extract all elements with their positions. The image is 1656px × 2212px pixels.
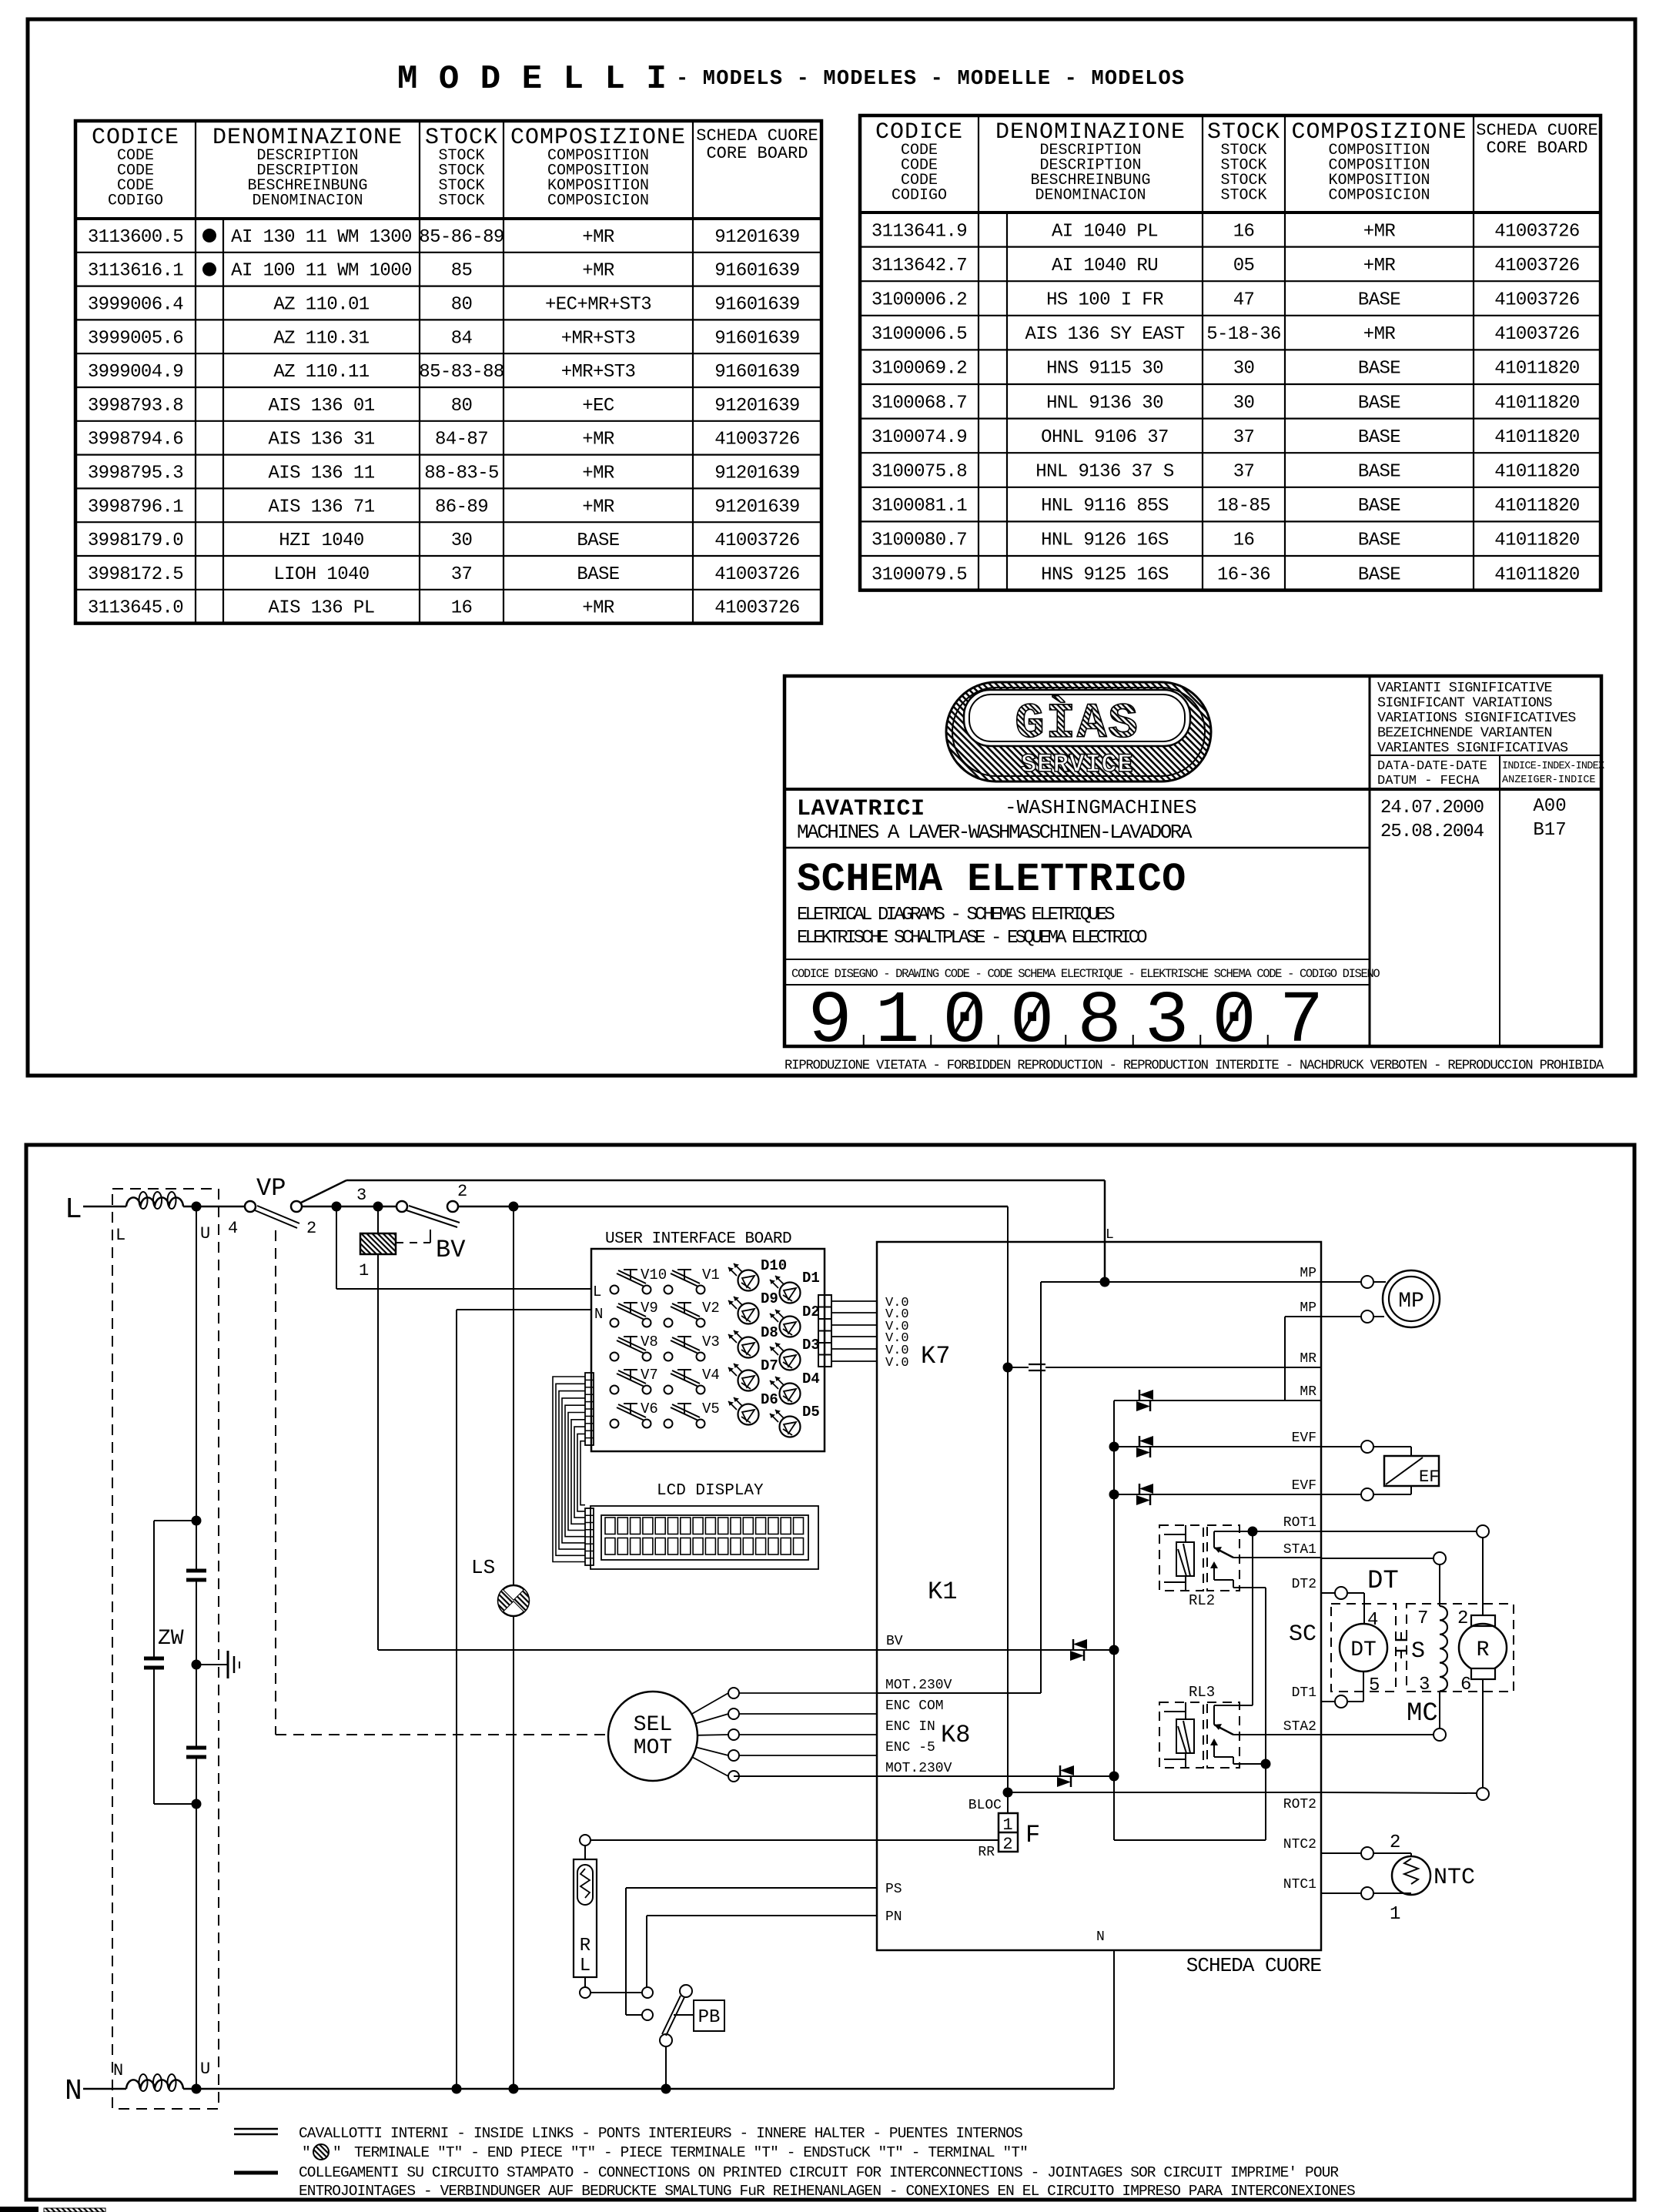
svg-text:V7: V7 [641,1367,658,1384]
dashed mechanical link BV [430,1230,431,1243]
svg-text:91601639: 91601639 [714,261,799,282]
svg-text:": " [333,2144,342,2161]
wire PB to N [665,2046,667,2089]
terminal ROT1 [1477,1525,1489,1538]
wire ZW left branch [153,1521,155,1658]
svg-text:CORE BOARD: CORE BOARD [706,144,808,163]
wire top L line to scheda cuore [346,1180,1105,1182]
wire EVF2 to terminal [1361,1488,1373,1501]
svg-text:3999004.9: 3999004.9 [88,362,183,383]
capacitor motor suppressor [1395,1639,1407,1641]
legend inside-links symbol [234,2128,278,2130]
svg-text:41011820: 41011820 [1494,564,1579,585]
node ZW top junction [192,1516,202,1526]
svg-text:41011820: 41011820 [1494,496,1579,517]
switch V10 [611,1267,667,1294]
fuse F [1007,1792,1009,1813]
svg-text:41011820: 41011820 [1494,393,1579,413]
svg-text:7: 7 [1280,979,1324,1063]
terminal NTC1 [1361,1887,1373,1899]
wire MR1 internal with inside link [1008,1367,1029,1368]
svg-text:18-85: 18-85 [1217,496,1270,517]
wire UI-N horizontal [457,1309,591,1310]
svg-text:05: 05 [1233,256,1255,276]
label box PB [694,2000,724,2031]
svg-text:AIS 136 01: AIS 136 01 [268,396,374,417]
svg-text:K7: K7 [921,1342,950,1370]
node ROT1 junction [1248,1527,1258,1537]
svg-text:+MR: +MR [582,463,614,484]
wire MOT.230V riser [1040,1282,1042,1693]
svg-text:3100006.2: 3100006.2 [871,290,967,311]
LED D6 [728,1391,778,1425]
terminal PB lower [642,2010,653,2020]
svg-text:PS: PS [885,1882,902,1897]
terminal DT2 [1335,1587,1347,1599]
svg-text:EVF: EVF [1292,1431,1316,1446]
svg-text:3998796.1: 3998796.1 [88,497,183,517]
svg-text:84: 84 [451,328,473,349]
svg-text:AIS 136 11: AIS 136 11 [268,463,374,484]
svg-text:MP: MP [1398,1290,1424,1313]
capacitor ZW C2 [144,1657,164,1661]
wire lamp drop [513,1206,514,1585]
wire PN internal and out [647,1915,877,1916]
svg-text:D6: D6 [761,1391,778,1408]
wire VP out to BV [302,1206,396,1208]
svg-text:TERMINALE "T" - END PIECE "T": TERMINALE "T" - END PIECE "T" - PIECE TE… [354,2144,1028,2161]
user interface board box [591,1249,825,1451]
wire EVF2 internal [1114,1494,1321,1495]
LED D4 [770,1370,820,1404]
LCD character cells [605,1518,804,1554]
svg-text:ENC IN: ENC IN [885,1719,935,1735]
switch V3 [664,1334,720,1361]
wire MP2 internal [1285,1316,1321,1317]
svg-text:+MR: +MR [1363,324,1396,345]
svg-text:3113645.0: 3113645.0 [88,598,183,619]
svg-text:INDICE-INDEX-INDEX: INDICE-INDEX-INDEX [1502,761,1604,772]
svg-text:ZW: ZW [158,1627,184,1651]
svg-text:ELETRICAL DIAGRAMS - SCHEMAS E: ELETRICAL DIAGRAMS - SCHEMAS ELETRIQUES [797,905,1115,925]
svg-text:9: 9 [808,979,852,1063]
svg-text:MOT.230V: MOT.230V [885,1678,952,1693]
svg-text:AI 100 11 WM 1000: AI 100 11 WM 1000 [231,261,412,282]
LCD display inner frame [601,1515,808,1560]
svg-text:+MR: +MR [582,430,614,450]
svg-text:V5: V5 [702,1400,720,1417]
node BV triac junction [1109,1645,1119,1655]
svg-text:VARIATIONS SIGNIFICATIVES: VARIATIONS SIGNIFICATIVES [1377,710,1576,726]
svg-text:MACHINES A LAVER-WASHMASCHINEN: MACHINES A LAVER-WASHMASCHINEN-LAVADORA [797,821,1193,844]
svg-text:L: L [580,1956,590,1976]
svg-text:SERVICE: SERVICE [1021,751,1133,780]
wire NTC2 external [1321,1852,1361,1854]
svg-text:HNL 9136 30: HNL 9136 30 [1046,393,1163,413]
svg-text:+MR+ST3: +MR+ST3 [561,362,636,383]
svg-text:U: U [200,1224,210,1243]
svg-text:ENTROJOINTAGES - VERBINDUNGER: ENTROJOINTAGES - VERBINDUNGER AUF BEDRUC… [299,2183,1355,2200]
wire UI-L drop [336,1206,337,1289]
wire EVF1 to EF valve [1373,1446,1411,1447]
svg-text:RL3: RL3 [1189,1684,1215,1701]
svg-text:L: L [65,1193,82,1226]
LED D7 [728,1357,778,1391]
triac EVF1 [1136,1436,1153,1457]
wires K7 to scheda cuore [831,1300,877,1302]
svg-text:85: 85 [451,261,473,282]
wire L input lead [83,1206,126,1208]
terminal NTC2 [1361,1847,1373,1859]
svg-text:37: 37 [1233,427,1255,448]
wire VP to top line [301,1180,346,1203]
svg-text:V6: V6 [641,1400,658,1417]
svg-text:84-87: 84-87 [435,430,488,450]
wire ZW branch top [154,1520,196,1521]
svg-text:37: 37 [1233,462,1255,483]
svg-text:NTC: NTC [1434,1865,1475,1891]
node MR1 junction [1003,1363,1013,1373]
svg-text:MR: MR [1300,1384,1316,1400]
node MOT triac junction [1109,1772,1119,1782]
svg-text:80: 80 [451,396,473,417]
terminal PB upper [642,1987,653,1998]
switch V7 [611,1367,658,1394]
svg-text:A00: A00 [1533,796,1566,817]
svg-text:3100069.2: 3100069.2 [871,359,967,380]
svg-text:HS 100 I FR: HS 100 I FR [1046,290,1163,311]
relay RL3 [1159,1702,1239,1768]
wire coil to VP [183,1206,245,1208]
LAVATRICI divider [785,847,1370,849]
svg-text:3998794.6: 3998794.6 [88,430,183,450]
svg-text:3113641.9: 3113641.9 [871,221,967,242]
wire STA1 to S winding [1439,1564,1440,1606]
svg-text:CODIGO: CODIGO [108,192,163,210]
svg-text:V.0: V.0 [885,1356,909,1370]
svg-text:V8: V8 [641,1334,658,1350]
LED D8 [728,1324,778,1358]
svg-text:MOT: MOT [634,1736,672,1760]
svg-text:LCD DISPLAY: LCD DISPLAY [657,1482,764,1500]
svg-text:V10: V10 [641,1267,667,1283]
svg-text:41011820: 41011820 [1494,530,1579,551]
wire lamp to N line [513,1616,514,2089]
svg-text:MP: MP [1300,1300,1316,1316]
svg-text:91201639: 91201639 [714,227,799,248]
svg-text:BEZEICHNENDE VARIANTEN: BEZEICHNENDE VARIANTEN [1377,725,1552,741]
svg-text:3: 3 [1145,979,1189,1063]
GIAS logo [946,682,1211,781]
svg-text:D10: D10 [761,1257,787,1274]
svg-text:+MR: +MR [582,261,614,282]
switch V4 [664,1367,720,1394]
switch V9 [611,1300,658,1327]
svg-text:2: 2 [1002,1835,1012,1854]
svg-text:SCHEDA CUORE: SCHEDA CUORE [696,126,818,146]
svg-text:24.07.2000: 24.07.2000 [1380,798,1484,818]
legend printed-circuit symbol [234,2171,278,2175]
svg-text:GÌAS: GÌAS [1015,695,1139,752]
svg-text:+EC: +EC [582,396,614,417]
svg-text:0: 0 [942,979,987,1063]
svg-text:F: F [1025,1821,1040,1849]
svg-text:2: 2 [457,1182,467,1201]
svg-text:3100080.7: 3100080.7 [871,530,967,551]
svg-text:AI 130 11 WM 1300: AI 130 11 WM 1300 [231,227,412,248]
svg-text:ANZEIGER-INDICE: ANZEIGER-INDICE [1502,775,1596,786]
svg-text:SCHEMA ELETTRICO: SCHEMA ELETTRICO [797,857,1186,902]
svg-text:OHNL 9106 37: OHNL 9106 37 [1041,427,1169,448]
LED D10 [728,1257,787,1291]
svg-text:+MR: +MR [582,497,614,517]
triac BV [1070,1639,1087,1661]
wire MOT.230V internal [877,1692,1041,1694]
svg-text:DENOMINACION: DENOMINACION [252,192,363,210]
svg-text:3998793.8: 3998793.8 [88,396,183,417]
svg-text:BASE: BASE [1358,290,1400,311]
svg-text:+MR: +MR [582,227,614,248]
wire ROT1 external [1321,1531,1477,1532]
svg-text:R: R [1477,1638,1490,1662]
svg-text:85-86-89: 85-86-89 [419,227,503,248]
top sheet border frame [28,19,1635,1076]
terminal RL bottom [580,1987,590,1998]
wire STA1 internal [1239,1557,1321,1558]
svg-text:DENOMINACION: DENOMINACION [1035,187,1146,205]
svg-text:D2: D2 [802,1303,820,1320]
svg-text:3100079.5: 3100079.5 [871,564,967,585]
svg-text:PN: PN [885,1909,902,1925]
svg-text:BASE: BASE [1358,393,1400,413]
svg-text:91201639: 91201639 [714,497,799,517]
svg-text:BLOC: BLOC [969,1798,1002,1813]
svg-text:AIS 136 SY EAST: AIS 136 SY EAST [1025,324,1184,345]
svg-text:16: 16 [1233,530,1255,551]
svg-text:3998172.5: 3998172.5 [88,564,183,585]
svg-text:2: 2 [1457,1608,1468,1629]
wire PB blade to label box [674,2014,694,2016]
DATA / INDICE header band [1370,755,1601,756]
LED D3 [770,1337,820,1370]
line filter dashed box [112,1189,219,2109]
svg-text:7: 7 [1417,1608,1428,1629]
svg-text:+EC+MR+ST3: +EC+MR+ST3 [545,295,651,316]
svg-text:3100074.9: 3100074.9 [871,427,967,448]
switch V8 [611,1334,658,1361]
svg-text:B17: B17 [1533,820,1566,841]
svg-text:DATUM - FECHA: DATUM - FECHA [1377,774,1480,788]
svg-text:BASE: BASE [1358,496,1400,517]
drawing code band [785,959,1370,960]
svg-text:+MR+ST3: +MR+ST3 [561,328,636,349]
svg-text:U: U [200,2060,210,2079]
svg-text:COMPOSICION: COMPOSICION [1328,187,1430,205]
wire MOT.230V lower internal [734,1775,1114,1777]
capacitor ZW C1 [186,1569,206,1573]
svg-text:41003726: 41003726 [714,598,799,619]
svg-text:ENC -5: ENC -5 [885,1740,935,1755]
svg-text:BV: BV [886,1634,903,1649]
switch V1 [664,1267,720,1294]
svg-text:AZ 110.01: AZ 110.01 [273,295,369,316]
motor windings dashed box S R [1407,1604,1514,1692]
schematic sheet border frame [26,1145,1634,2200]
wire PS internal and out [626,1887,877,1889]
wire RL2-RL3 riser [1265,1588,1266,1840]
svg-text:AIS 136 31: AIS 136 31 [268,430,374,450]
svg-text:USER INTERFACE BOARD: USER INTERFACE BOARD [605,1230,791,1248]
svg-text:0: 0 [1010,979,1055,1063]
wire RL3 NC junction link [1233,1763,1266,1765]
svg-text:BASE: BASE [1358,462,1400,483]
svg-text:D4: D4 [802,1370,820,1387]
svg-text:BASE: BASE [1358,427,1400,448]
svg-text:0: 0 [1212,979,1256,1063]
wire BV coil down to scheda BV pin [377,1254,379,1650]
svg-text:41003726: 41003726 [1494,256,1579,276]
terminal STA1 [1434,1552,1446,1564]
svg-text:6: 6 [1460,1675,1471,1695]
svg-text:41011820: 41011820 [1494,462,1579,483]
svg-text:LAVATRICI: LAVATRICI [797,796,925,822]
svg-text:8: 8 [1077,979,1122,1063]
rotor R brush bottom [1471,1668,1495,1679]
svg-text:STA1: STA1 [1283,1542,1316,1558]
svg-text:85-83-88: 85-83-88 [419,362,503,383]
wire BV to K1 [458,1206,1008,1208]
GIAS title block outer box [785,676,1601,1046]
wire MR2 internal [1114,1400,1321,1401]
svg-text:4: 4 [228,1219,238,1238]
svg-text:CODIGO: CODIGO [892,187,947,205]
dashed program-selector link from VP [275,1230,276,1735]
svg-text:N: N [594,1306,603,1323]
svg-text:N: N [65,2075,82,2108]
svg-text:AZ 110.31: AZ 110.31 [273,328,369,349]
svg-text:16: 16 [451,598,473,619]
wire L into board [1104,1180,1106,1282]
inductor L-coil (mains filter choke) [126,1197,183,1206]
node ground junction [192,1660,202,1670]
wire STA2 external [1321,1734,1434,1735]
ground symbol [227,1651,229,1678]
signal lamp RL [584,1846,586,1859]
svg-text:1: 1 [359,1261,369,1280]
stator winding S coil [1440,1606,1447,1691]
wire STA2 internal [1239,1734,1321,1735]
node N-UI junction [452,2084,462,2094]
wire riser link to triac column [1114,1839,1266,1841]
svg-text:ROT2: ROT2 [1283,1797,1316,1812]
wire BV internal [378,1649,1114,1651]
svg-text:DT1: DT1 [1292,1685,1316,1701]
wire ROT1 to RL3 riser [1252,1531,1253,1705]
svg-text:BASE: BASE [1358,359,1400,380]
svg-text:BV: BV [436,1236,466,1264]
svg-text:3113600.5: 3113600.5 [88,227,183,248]
wire to ground [196,1664,228,1665]
wire ZW branch bottom [154,1803,196,1805]
svg-text:80: 80 [451,295,473,316]
wire R to ROT2 terminal [1482,1679,1484,1788]
svg-text:NTC2: NTC2 [1283,1837,1316,1852]
svg-text:41011820: 41011820 [1494,359,1579,380]
svg-text:DT: DT [1367,1567,1399,1596]
svg-text:5: 5 [1369,1675,1380,1696]
svg-text:V3: V3 [702,1334,720,1350]
connector K7 on UI board [818,1295,831,1367]
door lock coil BV (hatched box) [360,1233,396,1254]
svg-text:41003726: 41003726 [714,530,799,551]
wire MP1 to pump terminal [1361,1276,1373,1288]
svg-text:30: 30 [1233,359,1255,380]
svg-text:D5: D5 [802,1404,820,1421]
node junction to UI-L [332,1202,342,1212]
svg-text:V9: V9 [641,1300,658,1317]
svg-text:D3: D3 [802,1337,820,1354]
svg-text:3999005.6: 3999005.6 [88,328,183,349]
VARIANTI SIGNIFICATIVE text block [1369,676,1371,1046]
svg-text:N: N [1096,1929,1105,1945]
svg-text:SEL: SEL [634,1713,672,1737]
svg-text:DT2: DT2 [1292,1577,1316,1592]
node junction to BV coil [373,1202,383,1212]
wire NTC1 external [1321,1892,1361,1894]
wire PN drop to PB [646,1916,647,1987]
svg-text:91201639: 91201639 [714,396,799,417]
svg-text:VP: VP [256,1174,286,1203]
selector motor terminals [691,1693,728,1714]
drain pump motor MP [1383,1270,1440,1327]
svg-text:D1: D1 [802,1270,820,1287]
wire main L riser to BLOC [1007,1206,1009,1792]
svg-text:N: N [113,2061,123,2080]
LED D5 [770,1404,820,1437]
svg-text:AI 1040 PL: AI 1040 PL [1052,221,1158,242]
svg-text:3: 3 [1419,1675,1430,1695]
LED D1 [770,1270,820,1303]
svg-text:ENC COM: ENC COM [885,1698,944,1714]
svg-text:41003726: 41003726 [1494,290,1579,311]
bottom-left print artifacts [0,2207,38,2212]
harness UI connector [585,1373,594,1445]
svg-text:- MODELS - MODELES - MODELLE -: - MODELS - MODELES - MODELLE - MODELOS [676,68,1185,91]
svg-text:3113642.7: 3113642.7 [871,256,967,276]
svg-text:AI 1040 RU: AI 1040 RU [1052,256,1158,276]
LED D9 [728,1290,778,1324]
svg-text:CORE BOARD: CORE BOARD [1486,139,1587,158]
svg-text:BASE: BASE [577,564,619,585]
svg-text:3100075.8: 3100075.8 [871,462,967,483]
svg-text:88-83-5: 88-83-5 [424,463,499,484]
svg-text:25.08.2004: 25.08.2004 [1380,822,1484,842]
svg-text:41011820: 41011820 [1494,427,1579,448]
svg-text:ELEKTRISCHE SCHALTPLASE - ESQU: ELEKTRISCHE SCHALTPLASE - ESQUEMA ELECTR… [797,928,1147,949]
wire DT1 external [1321,1701,1335,1702]
wire DT2 external [1321,1592,1335,1594]
svg-text:HNL 9136 37 S: HNL 9136 37 S [1035,462,1174,483]
node N-lamp junction [509,2084,519,2094]
svg-text:VARIANTI SIGNIFICATIVE: VARIANTI SIGNIFICATIVE [1377,680,1552,696]
svg-text:30: 30 [451,530,473,551]
wire triac column riser [1113,1400,1115,1840]
logo section divider [785,788,1601,791]
rotor R [1459,1624,1507,1672]
node N-PB junction [661,2084,671,2094]
node U junction on L wire [192,1202,202,1212]
svg-text:3999006.4: 3999006.4 [88,295,183,316]
